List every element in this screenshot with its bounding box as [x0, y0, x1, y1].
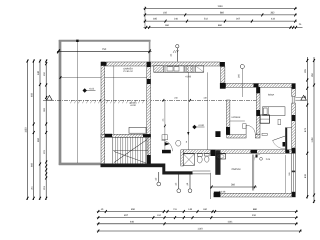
terrace outline right edge [149, 41, 151, 62]
wall jog black [162, 164, 165, 175]
svg-text:505: 505 [288, 172, 291, 175]
block garage NW corner [101, 62, 107, 66]
wall bath divider [181, 150, 184, 166]
vanity bath1 [162, 135, 168, 140]
block wall x148 mid [147, 79, 151, 84]
elevation marker living [192, 125, 196, 129]
leader from bubble [241, 69, 243, 98]
svg-text:150: 150 [163, 12, 168, 15]
top dimension row 1 [144, 8, 298, 10]
svg-text:1141: 1141 [227, 220, 233, 223]
interior wall corridor b [255, 135, 260, 138]
bench under wardrobe [262, 133, 267, 135]
left dimension col 4 [45, 60, 47, 201]
window band to terrace [193, 170, 211, 172]
stove [185, 66, 194, 72]
toilet 2 [197, 154, 202, 157]
sink bowl 2 [174, 67, 179, 71]
svg-text:860: 860 [220, 12, 225, 15]
svg-text:890: 890 [37, 137, 40, 142]
thin line x188 [187, 72, 189, 150]
thin line garage x114 [113, 66, 115, 134]
toilet bath1 [176, 140, 181, 146]
svg-text:1102: 1102 [311, 137, 314, 143]
dim 750 inside terrace [57, 50, 152, 52]
top dims left extension [144, 7, 146, 30]
stairs direction diagonal [114, 140, 147, 163]
arrow triangle bath1 [165, 142, 170, 146]
interior wall x148 [147, 62, 151, 164]
block wall x148 top [147, 62, 151, 67]
block stairs wall east [143, 134, 151, 137]
svg-text:±0.00: ±0.00 [130, 104, 136, 107]
exterior wall garage top [101, 62, 220, 66]
block SW of dining [214, 192, 221, 197]
top dimension row 4 [144, 26, 303, 28]
svg-text:240: 240 [37, 70, 40, 75]
wall terrace south (dark) [163, 171, 193, 174]
fridge [196, 66, 204, 72]
door arc partition [254, 155, 260, 161]
svg-text:1100: 1100 [217, 5, 223, 8]
stairs mid line [113, 150, 148, 152]
interior wall corridor a [227, 135, 246, 138]
pos marker circle terrace 2 [188, 189, 192, 193]
thin line x165 [164, 100, 166, 150]
svg-text:432: 432 [304, 173, 307, 178]
door hinge block [283, 142, 286, 147]
dim 260 terrace [210, 186, 257, 188]
door room1 leaf [273, 136, 286, 141]
bottom dimension row 1 [97, 211, 298, 213]
svg-text:362: 362 [270, 12, 275, 15]
door block partition [256, 155, 258, 158]
svg-text:+0.00: +0.00 [198, 124, 205, 127]
svg-text:750: 750 [102, 48, 107, 51]
pos marker circle stairs-south [157, 182, 161, 186]
svg-text:DNEVNI: DNEVNI [232, 168, 241, 171]
wall wc west (dark) [285, 128, 287, 154]
hall thin line [230, 120, 245, 122]
block midwall east [286, 150, 289, 154]
exterior wall step [221, 67, 225, 84]
column at dining NW [215, 131, 220, 137]
terrace outline bottom wall [59, 163, 101, 166]
block midwall mid [251, 150, 258, 154]
circle marker room2 [260, 157, 263, 160]
bidet [205, 154, 210, 156]
block NE wall west end [220, 83, 226, 89]
bed [263, 107, 286, 116]
kitchen counter [154, 71, 204, 73]
block right wall mid [292, 115, 296, 121]
light partition bottom rooms [252, 155, 254, 191]
terrace outline top wall [59, 40, 151, 42]
pos marker circle terrace 1 [177, 189, 181, 193]
svg-text:1130: 1130 [24, 127, 27, 133]
garage bench [129, 127, 146, 133]
terrace east thin line [209, 173, 211, 199]
bottom dimension row 2 [97, 217, 298, 219]
block SE corner [292, 192, 296, 197]
tick on top wall [76, 40, 78, 42]
svg-text:1140: 1140 [197, 228, 203, 231]
top dimension row 2 [144, 14, 298, 16]
hatch ticks below section line [70, 100, 72, 103]
kitchen cabinet hatched [154, 66, 164, 72]
terrace line y77 [60, 77, 148, 79]
exterior wall bottom-right [214, 193, 296, 197]
left dimension col 2 [33, 60, 35, 201]
block wall x148 low [147, 155, 151, 164]
exterior wall north-east [226, 84, 296, 88]
window in right wall [291, 96, 295, 103]
block NE corner [292, 84, 296, 89]
door arc hall [246, 125, 255, 134]
svg-text:260: 260 [231, 183, 236, 186]
block wall x258 top [256, 87, 260, 93]
left dimension col 3 [39, 60, 41, 201]
wc north line [285, 127, 291, 129]
interior wall x228 [227, 100, 230, 135]
door room1 arc [273, 141, 286, 149]
exterior wall right [292, 87, 296, 153]
svg-text:A 0.08: A 0.08 [219, 191, 226, 194]
thin line x207 [207, 72, 209, 150]
interior wall x258 [256, 87, 260, 134]
terrace outline left wall [59, 40, 62, 165]
wardrobe [260, 115, 269, 123]
sink bowl 1 [167, 67, 173, 71]
block midwall at bath east [210, 150, 215, 156]
right dimension col 1 [306, 57, 308, 199]
block NE wall mid [254, 84, 259, 88]
svg-text:HODNIK: HODNIK [232, 116, 241, 119]
block step top [220, 62, 225, 67]
svg-text:240: 240 [174, 97, 177, 100]
grid bubble [240, 64, 244, 68]
section arrow left [47, 95, 53, 100]
right dimension col 2 [313, 57, 315, 203]
pos marker circle top [176, 45, 179, 48]
sill line room2 [285, 155, 287, 193]
wire terrace inner line [76, 42, 78, 164]
block right wall at midwall [292, 148, 296, 154]
washbasin [216, 154, 226, 159]
svg-text:2.05: 2.05 [266, 158, 271, 161]
window band right wall south [291, 153, 293, 193]
kitchen sink counter [165, 66, 184, 72]
section line A-A [43, 99, 256, 101]
svg-text:473: 473 [304, 127, 307, 132]
block midwall west end [162, 150, 171, 154]
block wall x258 bottom [256, 110, 260, 116]
svg-text:448: 448 [203, 97, 206, 100]
wall below stairs (dark) [101, 164, 164, 168]
bottom dimension row 4 [97, 230, 302, 232]
interior wall middle long [183, 150, 295, 154]
window sill lines right [295, 96, 306, 98]
exterior wall garage left [101, 62, 105, 164]
svg-text:-0.02: -0.02 [89, 87, 95, 90]
block stairs wall west [105, 134, 113, 138]
wall dining west (dark) [215, 150, 220, 175]
shower box [183, 154, 194, 166]
door arc bath1 [162, 140, 173, 151]
section arrow right [301, 95, 307, 100]
wall black x228 bottom [226, 127, 230, 135]
elevation marker terrace [83, 88, 87, 92]
tick on wall at section line [100, 99, 105, 101]
top dimension row 3 [144, 20, 298, 22]
window mullion right [292, 171, 296, 173]
svg-text:21.30 m2: 21.30 m2 [123, 70, 133, 73]
radiator room1 [278, 119, 281, 125]
svg-text:SOBA: SOBA [268, 94, 275, 97]
bottom dimension row 3 [97, 223, 298, 225]
radiator hall [243, 124, 247, 129]
left dimension col 1 [27, 60, 29, 201]
staircase [113, 137, 148, 164]
interior wall stairs top [101, 134, 151, 137]
